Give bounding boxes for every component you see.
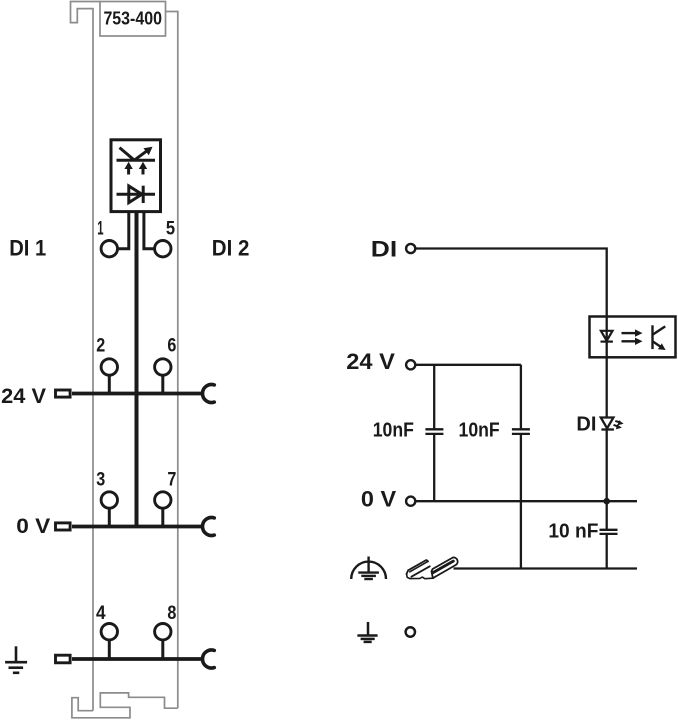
wire earth row [72,657,202,661]
terminal lug 24V [56,390,71,397]
U2 phototransistor emitter [653,341,666,350]
U2 light arrow upper [622,329,643,336]
wire C1 to 0V rail [433,434,435,501]
wire U1 to contact 1 [118,212,129,249]
clamp bottom zigzag [407,574,433,579]
contact 6 [155,359,171,375]
terminal 24V [406,360,415,369]
U1 diode cathode bar [142,186,145,203]
wire 24V rail [415,364,521,366]
optocoupler U2 box [590,317,676,358]
contact 4 stem [108,640,111,659]
svg-text:8: 8 [167,603,176,624]
contact 6 stem [161,375,164,393]
contact 8 [155,624,171,640]
U2 wire through box [606,317,608,358]
U2 LED cathode bar [601,341,613,343]
contact 3 [101,492,117,508]
U1 incident ray [120,148,135,161]
svg-text:DI: DI [576,414,596,436]
LED DI emission arrow upper [615,420,623,425]
svg-text:1: 1 [97,218,104,239]
capacitor C1 [425,429,443,434]
optocoupler U1 box [111,140,161,212]
DIN rail clamp (3D) [407,557,458,578]
earth symbol (schematic bottom) [357,622,377,642]
contact 7 stem [161,508,164,526]
contact 1 [101,241,117,257]
capacitor C3 [600,530,618,534]
svg-text:DI 2: DI 2 [212,235,250,260]
U1 barrier bar [117,159,156,162]
wire U1 to contact 5 [144,212,155,249]
svg-text:4: 4 [96,603,106,624]
module outline: right rail [166,12,178,709]
clamp right flange dark band [433,561,453,573]
U2 phototransistor collector [653,326,666,334]
cage clamp earth row [203,650,215,668]
LED DI cathode bar [601,428,614,430]
noiseless earth stem [367,557,369,573]
wire 24V row [72,392,202,396]
U1 reflected ray arrow [134,147,152,161]
cage clamp 0V row [203,518,215,536]
U2 light arrow lower [622,338,643,345]
terminal 0V [406,497,415,506]
contact 7 [155,492,171,508]
wire C2 to shield rail [520,434,522,569]
noiseless earth bars [358,573,379,579]
wire C3 to shield rail [606,534,608,569]
contact 3 stem [108,508,111,526]
svg-text:7: 7 [167,469,176,490]
LED DI triangle [601,418,614,429]
wire 0V rail [415,500,637,502]
svg-text:6: 6 [167,336,176,357]
svg-text:10 nF: 10 nF [548,519,598,542]
terminal lug 0V [56,523,71,530]
contact 2 stem [108,375,111,393]
U2 LED triangle [601,331,613,341]
wire U1 center lead down to 0V row [135,212,139,527]
clamp left flange second edge [410,562,428,572]
contact 4 [101,624,117,640]
svg-text:10nF: 10nF [373,419,414,442]
ground symbol (module, bottom left) [5,646,27,673]
clamp left flange top edges [407,560,429,574]
U2 phototransistor base bar [651,325,653,349]
wire branch to C1 [433,365,435,430]
wire optocoupler to LED DI [606,357,608,417]
clamp right flange body [432,557,458,578]
U1 diode line [117,193,156,196]
cage clamp 24V row [203,385,215,403]
capacitor C2 [512,429,530,434]
module outline: top hook and left rail [71,2,101,711]
svg-text:5: 5 [166,218,176,239]
svg-text:10nF: 10nF [459,419,500,442]
contact 5 [155,241,171,257]
wire 0V row [72,525,202,529]
svg-text:DI 1: DI 1 [9,235,46,260]
junction node 0V [603,498,610,505]
module outline: bottom foot [72,693,178,718]
unconnected terminal circle [406,627,415,636]
terminal DI [406,244,415,253]
wire node to C3 [606,501,608,530]
svg-text:0 V: 0 V [361,486,396,511]
wire shield rail [454,567,638,569]
wire LED DI to 0V node [606,430,608,502]
svg-text:24 V: 24 V [1,385,46,408]
U1 light arrow right [139,162,147,175]
label box 753-400 [100,2,166,37]
noiseless earth arc [351,562,386,579]
wire down to C2 [520,365,522,430]
contact 2 [101,359,117,375]
wire DI to optocoupler [415,249,606,317]
svg-text:24 V: 24 V [346,349,395,374]
LED DI emission arrow lower [614,424,622,429]
svg-text:753-400: 753-400 [103,9,162,29]
svg-text:3: 3 [96,469,105,490]
terminal lug earth row [56,655,71,663]
svg-text:0 V: 0 V [16,515,50,538]
svg-text:2: 2 [96,336,105,357]
svg-text:DI: DI [371,236,397,261]
U1 light arrow left [124,162,132,175]
clamp left flange lower edge [411,566,429,576]
U1 diode triangle [129,186,142,203]
contact 8 stem [161,640,164,659]
